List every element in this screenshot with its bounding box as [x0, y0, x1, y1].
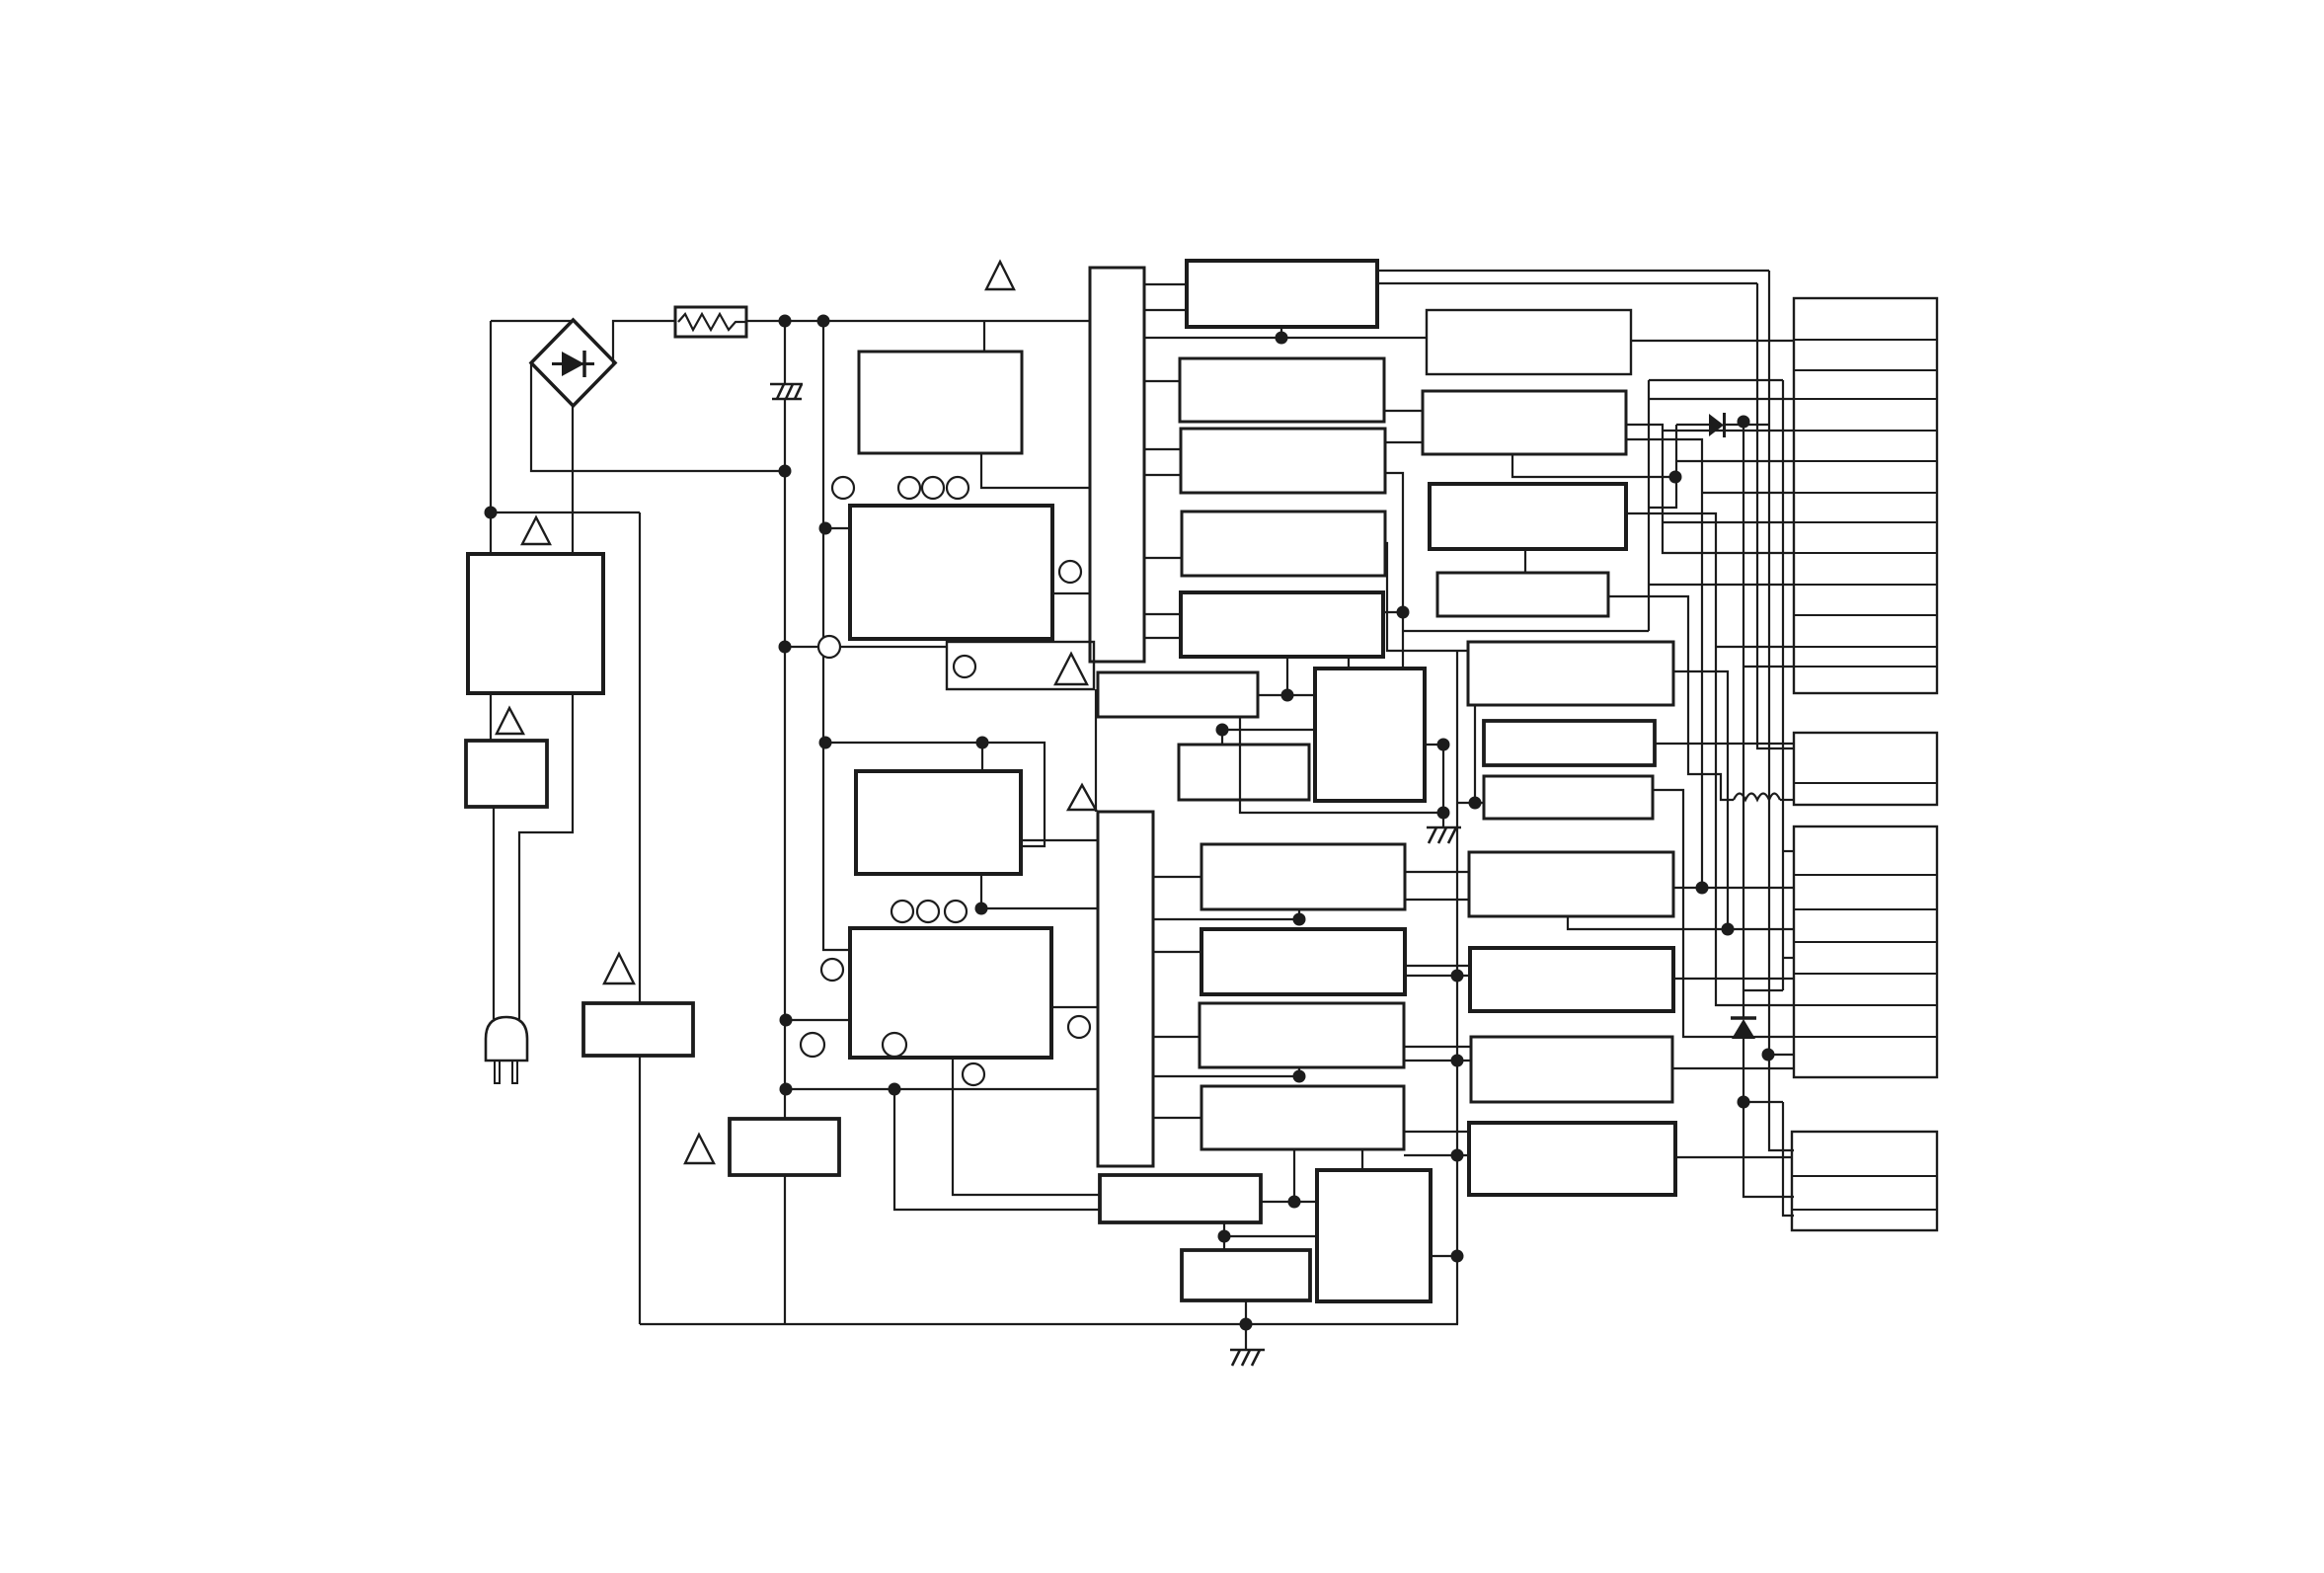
wire: N3 out via x=1705 to stack3: [1653, 790, 1794, 1037]
wire: M1 output: [1673, 978, 1794, 980]
warning triangle (above T1): [522, 517, 550, 544]
junction node (1791,1068): [1762, 1049, 1775, 1062]
warning triangle (in strip): [1055, 654, 1087, 684]
junction node (1766,1116): [1738, 1096, 1750, 1109]
junction node (1476,988): [1451, 970, 1464, 983]
wire: bus2 elbow to transformer-2 region: [825, 743, 1045, 846]
wire: wide box bottom pin to sig-ground node: [1240, 717, 1443, 813]
box R1: [1427, 310, 1631, 374]
connector strip CN1: [947, 642, 1094, 689]
wire: N1 out via x=1750 down: [1673, 671, 1728, 929]
pin circle right of IC-B: [1059, 561, 1081, 583]
pin circle on strip feed: [818, 636, 840, 658]
junction node (1476,1074): [1451, 1055, 1464, 1067]
wire: N3 feed from long vertical: [1457, 802, 1484, 804]
wire: R4 out via x=1710 to inductor: [1608, 596, 1734, 800]
wire: R3 to R4 link: [1524, 549, 1526, 573]
wire: bar to R1 line: [1144, 337, 1427, 339]
box 5: [1181, 592, 1383, 657]
junction node (1697,483): [1669, 471, 1682, 484]
wire: crossing line y=592: [1649, 584, 1794, 586]
warning triangle (left of box H): [685, 1135, 714, 1163]
box 2: [1180, 358, 1384, 422]
wire: box5 right to junction: [1383, 611, 1403, 613]
wire: diode D2 anode net: [1675, 425, 1677, 477]
wire: stub from D3 node: [1743, 1101, 1783, 1103]
junction node (795,325): [779, 315, 792, 328]
wire: L3 bottom pin net: [1298, 1067, 1300, 1076]
box E: [1317, 1170, 1431, 1301]
pin circle in strip: [954, 656, 975, 677]
junction node (1304,704): [1281, 689, 1294, 702]
wide box under bar: [1098, 672, 1258, 717]
wire: relay feed vertical x=648 upper: [639, 512, 641, 1003]
junction node (1462,823): [1437, 807, 1450, 820]
wire: L1 to M0 pair: [1405, 871, 1469, 873]
box M2: [1471, 1037, 1672, 1102]
box R3: [1430, 484, 1626, 549]
diode D2 anode lead: [1676, 424, 1709, 426]
wire: M3 output: [1675, 1156, 1792, 1158]
wire: box W2 bottom to box G and E: [1223, 1222, 1225, 1250]
wire: N2 output to stack2: [1655, 743, 1794, 745]
wire: long vertical x=1476 from N1 wire to bottom rail: [1456, 651, 1458, 1324]
wire: box5 bottom pin to node: [1286, 657, 1288, 695]
wire: box H bottom to ground rail: [784, 1175, 786, 1324]
wire: transformer-2 bottom pin to lower bar: [981, 874, 1098, 908]
box N3: [1484, 776, 1653, 819]
wire: R2 bottom pin to node: [1512, 454, 1675, 477]
wire: lower bar to L stubs: [1153, 876, 1201, 878]
junction node (994,920): [975, 903, 988, 915]
wire: IC-A top pin to AC bus: [983, 321, 985, 352]
junction node (1240,1252): [1218, 1230, 1231, 1243]
wire: bar to box5 stubs: [1144, 613, 1181, 615]
wire: R3 out via x=1738 to stack3: [1626, 513, 1794, 1005]
box 3: [1181, 429, 1385, 493]
wire: y=639 return to box5 side: [1403, 630, 1649, 632]
wire: box4 right via x=1405 to N1: [1385, 543, 1468, 651]
wire: bar to box3 stubs: [1144, 448, 1181, 450]
pin circle T2 2: [917, 901, 939, 922]
junction node (1316,931): [1293, 913, 1306, 926]
chassis ground (AC bus): [770, 384, 803, 399]
wire: bar to box1 stubs: [1144, 283, 1187, 285]
junction node (795,477): [779, 465, 792, 478]
wire: L4 to M3 pair: [1404, 1131, 1469, 1133]
wire: bus tap long to lower bar: [786, 1088, 1098, 1090]
wire: bridge bottom vertex into transformer: [572, 406, 574, 554]
junction node (1750,941): [1722, 923, 1735, 936]
junction node (497,519): [485, 507, 498, 519]
wire: R2 second out via x=1724 down: [1626, 439, 1702, 888]
pin circle IC-A 2: [922, 477, 944, 499]
diode D2 (horizontal): [1709, 414, 1724, 436]
wire: resistor output bus to upper connector bar: [746, 320, 1090, 322]
box N1: [1468, 642, 1673, 705]
wire: node jog to x=1670 riser: [1649, 477, 1676, 508]
junction node (795,655): [779, 641, 792, 654]
wire: L3 to M2 pair: [1404, 1046, 1471, 1048]
junction node (834,325): [817, 315, 830, 328]
wire: bar to box2 stub: [1144, 380, 1180, 382]
plug prongs: [495, 1061, 500, 1083]
pin circle right of IC-D: [1068, 1016, 1090, 1038]
box 1: [1187, 261, 1377, 327]
stack1 frame: [1794, 298, 1937, 693]
warning triangle (mid lower): [1068, 785, 1096, 810]
wire: IC-D right pin to lower bar: [1051, 1006, 1098, 1008]
AC plug P1: [486, 1017, 527, 1061]
box 4: [1182, 511, 1385, 576]
pin circle left-inside IC-D: [801, 1033, 824, 1057]
wire: bus x=795 main vertical below ground: [784, 398, 786, 1119]
stack3 frame: [1794, 826, 1937, 1077]
junction node (1421,620): [1397, 606, 1410, 619]
junction node (1311,1217): [1288, 1196, 1301, 1209]
junction node (1462,754): [1437, 739, 1450, 751]
pin circle IC-A lone: [832, 477, 854, 499]
wire: wide box to big box T link: [1258, 694, 1315, 696]
wire: branch down to box W2 upper pin: [894, 1089, 1100, 1210]
stack2 frame: [1794, 733, 1937, 805]
box K: [1179, 745, 1309, 800]
thermal fuse box: [466, 741, 547, 807]
wire: crossing stub y=529: [1663, 521, 1794, 523]
junction node (1766,427): [1738, 416, 1750, 429]
wire: ground drop below rail: [1245, 1324, 1247, 1350]
wire: bus x=834 vertical: [823, 321, 850, 950]
wire: bridge right vertex riser to fusible resistor: [613, 321, 675, 363]
wire: bundle x=1806: [1782, 380, 1784, 990]
pin circle T2 1: [891, 901, 913, 922]
box L4: [1201, 1086, 1404, 1149]
wire: box W2 to box E with L4 drop: [1261, 1201, 1317, 1203]
wire: box3 to R2 lower: [1385, 441, 1423, 443]
wire: relay output down to bottom rail: [639, 1056, 641, 1324]
wire: M0 output to stack3: [1673, 887, 1794, 889]
wire: IC-A bottom pin to upper bar: [981, 453, 1090, 488]
wire: R1 to right stack: [1631, 340, 1794, 342]
wire: left drop from corner into transformer primary: [490, 321, 492, 554]
wire: bus tap to connector strip: [787, 646, 947, 648]
resistor body: [675, 307, 746, 337]
IC D (lower regulator): [850, 928, 1051, 1058]
junction node (1316,1090): [1293, 1070, 1306, 1083]
wire: transformer secondary left to small box: [490, 693, 492, 741]
box N2: [1484, 721, 1655, 765]
wire: M0 bottom pin to stack3: [1568, 916, 1794, 929]
junction node (906,1103): [889, 1083, 901, 1096]
wire: tap from transformer-primary drop to relay feed: [491, 511, 640, 513]
wire: box5 second pin into big box T: [1348, 657, 1350, 669]
wire: inductor lead to stack2: [1780, 799, 1794, 801]
box L2: [1201, 929, 1405, 994]
junction node (1476,1170): [1451, 1149, 1464, 1162]
junction node (1724,899): [1696, 882, 1709, 895]
box W2: [1100, 1175, 1261, 1222]
pin circle IC-A 1: [898, 477, 920, 499]
wire: L4 second pin to box E top: [1361, 1149, 1363, 1170]
box G: [1182, 1250, 1310, 1300]
box R4: [1437, 573, 1608, 616]
bridge rectifier D1 diamond: [531, 320, 615, 406]
wire: D2 cathode to bundle: [1724, 424, 1769, 426]
pin circle below IC-D: [963, 1063, 984, 1085]
stack4 frame: [1792, 1132, 1937, 1230]
IC B (main regulator): [850, 506, 1052, 639]
wire: box2 to R2: [1384, 410, 1423, 412]
wire: box E right to long vertical: [1431, 1255, 1457, 1257]
junction node (1262,1341): [1240, 1318, 1253, 1331]
diode D3 (vertical): [1731, 1016, 1756, 1020]
junction node (1298,342): [1276, 332, 1288, 345]
wire: strip right edge down to wide box: [1095, 689, 1097, 812]
wire: transformer-2 right to lower bar: [1021, 839, 1098, 841]
wire: box1 bottom pin: [1280, 327, 1282, 338]
warning triangle (above relay): [604, 954, 634, 983]
pin circle in IC-D: [883, 1033, 906, 1057]
box M3: [1469, 1123, 1675, 1195]
box L3: [1200, 1003, 1404, 1067]
wire: N1 bottom pin down to N3 node: [1474, 705, 1476, 803]
box L1: [1201, 844, 1405, 909]
wire: L1 bottom pin net: [1298, 909, 1300, 919]
inductor L coil: [1734, 794, 1780, 801]
warning triangle (above fuse box): [497, 708, 523, 734]
box R2: [1423, 391, 1626, 454]
wire: box3 lower pin via x=1421 to big box T: [1385, 473, 1403, 669]
junction node (796,1033): [780, 1014, 793, 1027]
warning triangle (top): [986, 262, 1014, 289]
transformer T2: [856, 771, 1021, 874]
junction node (836,535): [819, 522, 832, 535]
lower connector bar: [1098, 812, 1153, 1166]
wire: M2 output: [1672, 1067, 1794, 1069]
wire: stub into stack1 bottom row: [1743, 666, 1794, 668]
wire: tap down into transformer-2 top: [981, 743, 983, 771]
wire: big box T right pin to ground drop: [1425, 745, 1443, 827]
relay RL1: [583, 1003, 693, 1056]
box M0: [1469, 852, 1673, 916]
wire: bus tap to IC-B left: [825, 527, 850, 529]
wire: bridge left vertex down and across to bus: [531, 363, 785, 471]
wire: IC-D bottom pin to box W2: [953, 1058, 1100, 1195]
signal ground (big box T net): [1427, 827, 1461, 843]
wire: diode chain vertical x=1766: [1743, 422, 1744, 1019]
pin circle IC-A 3: [947, 477, 968, 499]
signal ground (bottom rail): [1230, 1350, 1265, 1366]
wire: L2 to M1 pair: [1405, 965, 1470, 967]
junction node (796,1103): [780, 1083, 793, 1096]
junction node (836,752): [819, 737, 832, 749]
bridge diode symbol: [552, 362, 594, 365]
junction node (1238,739): [1216, 724, 1229, 737]
wire: R2 out via x=1684 to stack: [1626, 425, 1794, 553]
wire: bus x=795 upper segment to chassis ground: [784, 321, 786, 383]
wire: box G bottom to ground rail: [1245, 1300, 1247, 1324]
upper connector bar: [1090, 268, 1144, 662]
wire: bundle x=1780 to stack2: [1757, 283, 1794, 748]
wire: IC-B right pin to upper bar: [1052, 592, 1090, 594]
box A (sub regulator): [859, 352, 1022, 453]
resistor zigzag: [678, 314, 746, 330]
wire: riser x=1670 and top crossover to x=1806: [1648, 380, 1650, 631]
wire: AC line top from corner to bridge top vertex: [491, 320, 573, 322]
transformer T1: [468, 554, 603, 693]
junction node (995,752): [976, 737, 989, 749]
junction node (1494,813): [1469, 797, 1482, 810]
wire: small box to plug lead: [493, 807, 495, 1019]
box M1: [1470, 948, 1673, 1011]
wire: box K top pin to big box T: [1222, 730, 1315, 745]
wire: box1 outputs to right bundle: [1377, 270, 1769, 272]
wire: bottom ground rail: [640, 1323, 1458, 1325]
big box T: [1315, 669, 1425, 801]
pin circle left of IC-D: [821, 959, 843, 981]
wire: transformer secondary right jog down to plug: [519, 693, 573, 1019]
pin circle T2 3: [945, 901, 967, 922]
wire: bar to box4 stub: [1144, 557, 1182, 559]
wire: bundle x=1792 long: [1769, 271, 1794, 1150]
wire: bus tap to IC-D left: [786, 1019, 850, 1021]
box H (filter): [730, 1119, 839, 1175]
junction node (1476,1272): [1451, 1250, 1464, 1263]
